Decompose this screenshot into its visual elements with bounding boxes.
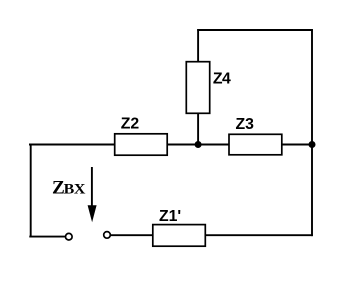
terminal: right input (open circle) <box>104 232 111 239</box>
impedance Z4 box <box>186 62 209 114</box>
svg-text:Z4: Z4 <box>213 71 231 88</box>
impedance Z1' box <box>153 225 206 247</box>
arrow: Zвх measurement direction (shaft) <box>91 167 93 207</box>
impedance Z3 box <box>229 134 282 155</box>
wire: Z4 bottom lead <box>197 113 199 146</box>
svg-text:ZВХ: ZВХ <box>52 178 86 199</box>
arrow: Zвх head <box>88 205 97 222</box>
node: right junction <box>309 141 316 148</box>
svg-text:Z1': Z1' <box>159 208 181 225</box>
wire: Z4 top lead <box>197 29 199 62</box>
wire: right terminal to Z1' <box>111 234 153 236</box>
svg-text:Z3: Z3 <box>236 116 255 133</box>
wire: right vertical branch <box>311 29 313 236</box>
wire: left vertical from main net down <box>30 144 32 237</box>
wire: Z1' to right vertical <box>206 234 313 236</box>
terminal: left input (open circle) <box>66 233 73 240</box>
wire: bottom-left horizontal to input terminal <box>29 236 65 238</box>
node: junction of Z2/Z3/Z4 <box>195 141 202 148</box>
svg-text:Z2: Z2 <box>121 115 140 132</box>
impedance Z2 box <box>115 134 168 155</box>
wire: top horizontal branch <box>197 29 313 31</box>
wire: main horizontal net between Z2/Z3 nodes <box>29 144 313 146</box>
